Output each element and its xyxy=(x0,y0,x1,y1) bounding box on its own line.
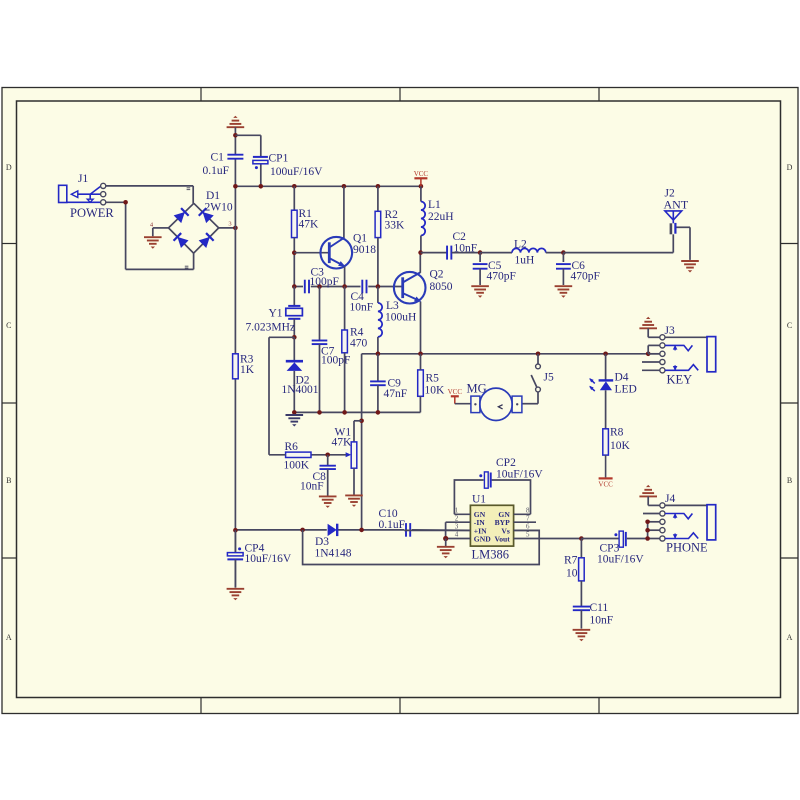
svg-text:4: 4 xyxy=(455,531,459,539)
wire to CP1 xyxy=(235,134,260,136)
op-amp U1 LM386 box xyxy=(470,505,513,546)
node C1 top xyxy=(233,133,238,138)
svg-text:U1: U1 xyxy=(472,494,486,506)
svg-text:0.1uF: 0.1uF xyxy=(203,165,230,177)
U1 pin stubs and numbers xyxy=(454,513,470,515)
svg-text:B: B xyxy=(787,476,792,485)
LED arrows xyxy=(590,379,595,384)
svg-text:3: 3 xyxy=(228,221,231,228)
svg-text:A: A xyxy=(787,633,793,642)
svg-text:J4: J4 xyxy=(665,493,675,505)
inductor L1 22uH xyxy=(420,186,422,201)
node Y1 bottom xyxy=(292,335,297,340)
svg-text:L1: L1 xyxy=(428,199,441,211)
connector J3 KEY jack xyxy=(660,335,665,340)
transistor Q1 9018 xyxy=(343,186,345,238)
svg-text:47K: 47K xyxy=(299,219,320,231)
svg-text:D1: D1 xyxy=(206,190,220,202)
svg-text:10K: 10K xyxy=(425,385,446,397)
svg-text:VCC: VCC xyxy=(414,170,429,178)
svg-text:LED: LED xyxy=(615,384,637,396)
bridge diode top-left xyxy=(174,212,185,223)
svg-text:VCC: VCC xyxy=(598,480,613,488)
potentiometer W1 47K xyxy=(351,442,357,468)
svg-text:ANT: ANT xyxy=(664,198,689,212)
svg-text:LM386: LM386 xyxy=(472,548,510,562)
capacitor C1 xyxy=(227,154,243,156)
capacitor C2 10nF xyxy=(446,246,448,260)
svg-text:5: 5 xyxy=(526,531,530,539)
svg-text:R6: R6 xyxy=(285,441,299,453)
svg-text:Y1: Y1 xyxy=(269,308,283,320)
svg-text:R7: R7 xyxy=(564,555,578,567)
capacitor CP4 10uF/16V xyxy=(234,530,236,552)
feedback loop below U1 xyxy=(303,530,540,565)
svg-text:GND: GND xyxy=(474,535,491,544)
svg-text:R8: R8 xyxy=(610,427,624,439)
ground rail bottom xyxy=(294,411,420,413)
svg-text:22uH: 22uH xyxy=(428,211,454,223)
ground under C11 xyxy=(573,629,591,631)
svg-text:7: 7 xyxy=(526,514,530,522)
svg-text:KEY: KEY xyxy=(667,373,693,387)
ground above J4 xyxy=(639,495,657,497)
svg-text:10K: 10K xyxy=(610,440,631,452)
svg-text:10uF/16V: 10uF/16V xyxy=(496,469,543,481)
svg-text:2: 2 xyxy=(455,514,459,522)
svg-text:J1: J1 xyxy=(78,173,88,185)
ground under D2 rail xyxy=(286,414,304,416)
crystal Y1 7.023MHz xyxy=(293,287,295,306)
svg-text:CP2: CP2 xyxy=(496,457,516,469)
capacitor C6 470pF xyxy=(562,253,564,262)
row C3 C4 Q2 base xyxy=(294,286,303,288)
svg-text:1N4148: 1N4148 xyxy=(315,548,352,560)
svg-text:10: 10 xyxy=(566,568,578,580)
svg-text:9018: 9018 xyxy=(353,244,376,256)
svg-text:100pF: 100pF xyxy=(310,276,339,288)
svg-text:C: C xyxy=(787,321,792,330)
resistor R2 33K xyxy=(377,186,379,211)
capacitor CP2 10uF/16V bypass loop xyxy=(454,480,483,514)
svg-text:B: B xyxy=(6,476,11,485)
svg-text:100K: 100K xyxy=(284,460,310,472)
svg-text:Vout: Vout xyxy=(494,535,510,544)
svg-text:1N4001: 1N4001 xyxy=(282,384,319,396)
wire J1 bottom pin down and to bridge bottom xyxy=(106,201,126,203)
inductor L2 1uH xyxy=(480,252,512,254)
capacitor CP3 10uF/16V xyxy=(581,538,618,540)
svg-text:1uH: 1uH xyxy=(515,255,535,267)
svg-text:2W10: 2W10 xyxy=(205,202,233,214)
svg-text:POWER: POWER xyxy=(70,206,114,220)
bridge diode bottom-left xyxy=(177,237,188,248)
resistor R3 1K xyxy=(233,354,239,379)
main left vertical wire xyxy=(234,135,236,154)
resistor R6 100K xyxy=(286,452,311,457)
svg-text:Q1: Q1 xyxy=(353,233,367,245)
capacitor CP1 polarized xyxy=(253,156,268,158)
svg-text:VCC: VCC xyxy=(448,388,463,396)
svg-text:7.023MHz: 7.023MHz xyxy=(246,322,296,334)
capacitor C7 100pF xyxy=(319,287,321,341)
svg-text:C: C xyxy=(6,321,11,330)
svg-text:D3: D3 xyxy=(315,536,329,548)
ground top of sheet xyxy=(227,126,245,128)
capacitor C5 470pF xyxy=(479,253,481,262)
svg-text:100pF: 100pF xyxy=(321,355,350,367)
svg-text:PHONE: PHONE xyxy=(666,541,708,555)
node bridge output xyxy=(233,226,238,231)
J3 jack body xyxy=(665,336,707,338)
transistor Q2 8050 xyxy=(394,272,426,304)
svg-text:C11: C11 xyxy=(590,602,609,614)
svg-text:A: A xyxy=(6,633,12,642)
connector J2 ANT antenna xyxy=(665,211,682,220)
capacitor C8 10nF xyxy=(327,455,329,466)
inner border frame xyxy=(17,101,781,698)
svg-text:1K: 1K xyxy=(240,364,255,376)
svg-text:8050: 8050 xyxy=(430,281,453,293)
resistor R8 10K xyxy=(603,429,609,455)
svg-text:47nF: 47nF xyxy=(384,388,408,400)
capacitor C11 10nF xyxy=(573,606,590,608)
svg-text:Q2: Q2 xyxy=(430,269,444,281)
svg-text:47K: 47K xyxy=(332,437,353,449)
node J1 minus junction xyxy=(123,200,128,205)
svg-text:470: 470 xyxy=(350,338,368,350)
svg-text:R5: R5 xyxy=(426,373,440,385)
VCC below R8 xyxy=(599,477,613,479)
ground at bridge xyxy=(144,236,162,238)
resistor R5 10K xyxy=(418,370,424,396)
svg-text:100uH: 100uH xyxy=(385,312,416,324)
row A keying line xyxy=(362,353,660,355)
resistor R4 470 xyxy=(344,287,346,331)
wire J1 top pin to rail and bridge xyxy=(106,185,193,187)
ground under W1 xyxy=(345,494,363,496)
svg-text:3: 3 xyxy=(455,523,459,531)
capacitor C4 10nF xyxy=(361,280,363,294)
row C2 output filter xyxy=(418,250,423,255)
svg-text:J5: J5 xyxy=(544,372,554,384)
wire to antenna xyxy=(563,252,673,254)
wire bridge right corner to main vertical xyxy=(219,227,236,229)
resistor R1 47K xyxy=(293,186,295,210)
connector J1 POWER jack xyxy=(59,185,67,202)
node C5 xyxy=(478,250,483,255)
ground at U1 pin4 xyxy=(445,539,447,547)
svg-text:L3: L3 xyxy=(386,300,399,312)
power rail xyxy=(235,185,421,187)
diode D3 1N4148 xyxy=(328,524,337,536)
capacitor C3 100pF xyxy=(304,280,306,294)
J4 jack body xyxy=(665,504,707,506)
svg-text:470pF: 470pF xyxy=(487,271,516,283)
svg-text:0.1uF: 0.1uF xyxy=(379,519,406,531)
svg-text:C1: C1 xyxy=(211,152,225,164)
svg-text:D: D xyxy=(787,163,793,172)
svg-text:470pF: 470pF xyxy=(571,271,600,283)
svg-text:C2: C2 xyxy=(453,231,467,243)
node C6 xyxy=(561,250,566,255)
svg-text:1: 1 xyxy=(455,506,459,514)
svg-text:J3: J3 xyxy=(665,325,675,337)
ground above J3 xyxy=(639,327,657,329)
node C8 xyxy=(325,453,330,458)
switch J5 xyxy=(537,354,539,364)
node output pin5 xyxy=(579,536,584,541)
node Q1 base row xyxy=(292,250,297,255)
ground under C8 xyxy=(319,495,337,497)
svg-text:D4: D4 xyxy=(615,372,629,384)
svg-text:CP1: CP1 xyxy=(269,153,289,165)
zone tick marks xyxy=(200,88,202,102)
bridge rectifier D1 2W10 xyxy=(169,203,219,253)
capacitor C9 47nF xyxy=(377,354,379,381)
svg-text:100uF/16V: 100uF/16V xyxy=(270,166,323,178)
svg-text:6: 6 xyxy=(526,523,530,531)
jog to W1 top xyxy=(354,420,362,422)
svg-text:33K: 33K xyxy=(385,220,406,232)
svg-text:10nF: 10nF xyxy=(300,481,324,493)
connector J4 PHONE jack xyxy=(660,503,665,508)
capacitor C10 0.1uF xyxy=(405,523,407,537)
svg-text:D: D xyxy=(6,163,12,172)
resistor R7 10 xyxy=(580,539,582,558)
inductor L3 100uH xyxy=(377,287,379,303)
svg-text:L2: L2 xyxy=(514,239,527,251)
VCC symbol top xyxy=(414,177,427,179)
D3 row audio line xyxy=(235,529,326,531)
diode D2 1N4001 xyxy=(293,337,295,361)
svg-text:10nF: 10nF xyxy=(350,302,374,314)
svg-text:10uF/16V: 10uF/16V xyxy=(597,554,644,566)
svg-text:10uF/16V: 10uF/16V xyxy=(245,553,292,565)
ground under CP4 xyxy=(227,588,245,590)
bridge diode top-right xyxy=(203,212,214,223)
svg-text:8: 8 xyxy=(526,506,530,514)
wire row A down to D3 node xyxy=(361,354,363,530)
wire bridge left corner to ground xyxy=(153,227,169,229)
svg-text:10nF: 10nF xyxy=(590,615,614,627)
LED D4 xyxy=(605,354,607,380)
bridge diode bottom-right xyxy=(199,237,210,248)
